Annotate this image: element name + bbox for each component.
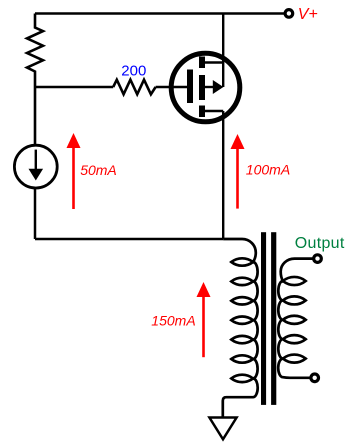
mosfet channel mid segment xyxy=(199,75,205,100)
resistor R2 (200) xyxy=(113,80,155,95)
mosfet gate bar xyxy=(187,70,193,104)
mosfet drain lead xyxy=(204,14,223,88)
svg-text:50mA: 50mA xyxy=(80,162,117,178)
svg-text:150mA: 150mA xyxy=(151,312,195,328)
arrow 100mA xyxy=(236,148,239,209)
transformer core bar 2 xyxy=(271,232,276,405)
transformer secondary winding xyxy=(278,259,313,378)
svg-text:100mA: 100mA xyxy=(246,162,290,178)
ground xyxy=(209,418,236,440)
current source arrow xyxy=(35,150,37,169)
current source I1 xyxy=(14,145,57,188)
svg-text:V+: V+ xyxy=(298,6,318,23)
wire top rail xyxy=(35,12,284,15)
arrow 50mA xyxy=(72,147,75,210)
mosfet source lead xyxy=(204,111,223,239)
mosfet channel bottom segment xyxy=(199,106,205,118)
wire gate row left xyxy=(35,86,113,89)
transformer primary winding xyxy=(223,239,258,417)
terminal V+ xyxy=(285,10,293,18)
arrow 150mA xyxy=(202,296,205,358)
mosfet T1 body circle xyxy=(171,53,240,122)
mosfet channel top segment xyxy=(199,57,205,69)
wire bottom rail xyxy=(35,238,223,241)
terminal output top xyxy=(314,255,322,263)
svg-text:Output: Output xyxy=(295,235,345,252)
wire current source to bottom rail xyxy=(34,188,37,239)
terminal output bottom xyxy=(311,374,319,382)
transformer core bar 1 xyxy=(261,232,266,405)
svg-text:200: 200 xyxy=(121,63,146,80)
resistor R1 (left vertical) with wire xyxy=(27,14,43,146)
mosfet body arrow xyxy=(204,86,214,88)
wire resistor to gate xyxy=(156,86,188,89)
